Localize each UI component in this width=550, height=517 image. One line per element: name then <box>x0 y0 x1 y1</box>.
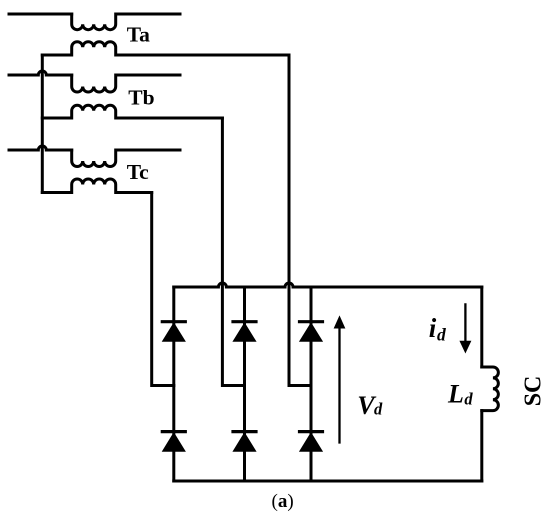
wire neutral (wye common) vertical <box>41 55 44 193</box>
wire phase input C with crossover hop <box>9 146 72 150</box>
wire right branch bottom (inductor to bus) <box>480 411 483 481</box>
transformer Tb primary winding <box>72 75 180 92</box>
diode D3 (upper, leg 3) <box>300 322 323 342</box>
wire feed from Tc secondary to bridge leg 1 <box>152 193 174 386</box>
transformer Tc primary winding <box>72 150 180 167</box>
wire bridge leg 2 <box>243 287 246 481</box>
wire feed from Tb secondary to bridge leg 2 <box>222 118 244 386</box>
inductor Ld <box>482 367 499 411</box>
wire right branch top (bus to inductor) <box>480 287 483 367</box>
svg-text:Tc: Tc <box>127 160 149 184</box>
wire phase input B with crossover hop <box>9 71 72 75</box>
wire feed from Ta secondary to bridge leg 3 <box>289 55 311 386</box>
svg-text:(a): (a) <box>272 491 294 512</box>
svg-text:Vd: Vd <box>357 391 383 420</box>
diode D6 (lower, leg 3) <box>300 432 323 452</box>
diode D5 (lower, leg 2) <box>233 432 256 452</box>
wire positive DC bus (top) with crossover hops <box>174 283 482 287</box>
transformer Tc secondary winding <box>42 179 151 193</box>
svg-text:Tb: Tb <box>128 86 154 110</box>
svg-text:id: id <box>429 313 446 345</box>
wire negative DC bus (bottom) <box>174 480 482 483</box>
arrow id (current, pointing down) <box>460 304 470 352</box>
wire bridge leg 3 <box>310 287 313 481</box>
diode D4 (lower, leg 1) <box>162 432 185 452</box>
wire bridge leg 1 <box>172 287 175 481</box>
svg-text:Ld: Ld <box>447 380 473 409</box>
svg-text:SC: SC <box>520 376 546 407</box>
transformer Tb secondary winding <box>42 105 222 118</box>
transformer Ta primary winding <box>72 14 180 30</box>
transformer Ta secondary winding <box>42 42 289 55</box>
wire phase input A <box>9 13 72 16</box>
arrow Vd (voltage, pointing up) <box>334 317 344 443</box>
diode D2 (upper, leg 2) <box>233 322 256 342</box>
diode D1 (upper, leg 1) <box>162 322 185 342</box>
svg-text:Ta: Ta <box>127 23 150 47</box>
